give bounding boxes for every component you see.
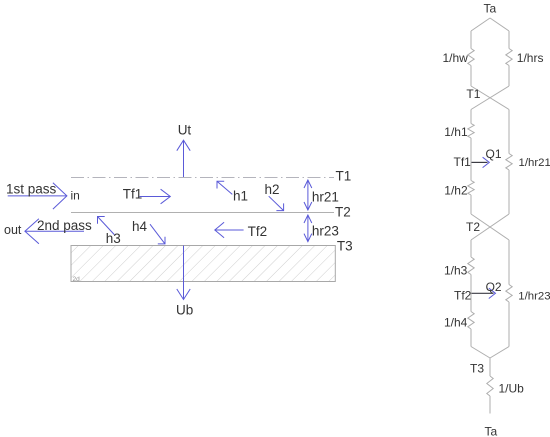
arrow Q2 (heat input at Tf2 node) <box>472 288 496 298</box>
svg-text:Ut: Ut <box>178 123 192 138</box>
node T1 crossing wire b <box>471 86 509 110</box>
glass cover line T2 <box>71 212 334 214</box>
svg-text:2nd pass: 2nd pass <box>37 218 92 233</box>
svg-text:T1: T1 <box>466 87 480 101</box>
svg-text:T3: T3 <box>337 239 353 254</box>
wire left d1 lower <box>470 66 472 87</box>
svg-text:1/hr21: 1/hr21 <box>519 157 550 169</box>
resistor 1/h3 <box>468 257 474 275</box>
svg-text:T3: T3 <box>470 362 484 376</box>
node T2 crossing wire a <box>471 214 509 240</box>
resistor 1/hr23 <box>506 285 512 303</box>
arrow 1st pass (inlet, right) <box>8 195 67 197</box>
arrow hr23 (double, T2-T3 gap) <box>304 215 312 242</box>
svg-text:1/h2: 1/h2 <box>444 184 468 198</box>
wire right d3 upper <box>508 240 510 285</box>
resistor 1/hw <box>468 49 474 66</box>
node T3 vertex wire left <box>471 347 490 359</box>
wire right d2 lower <box>508 170 510 214</box>
wire right d1 lower <box>508 66 510 87</box>
svg-text:1/h4: 1/h4 <box>444 316 468 330</box>
svg-text:1/hrs: 1/hrs <box>517 51 544 65</box>
svg-text:h1: h1 <box>233 189 248 204</box>
svg-text:2d: 2d <box>73 276 81 283</box>
svg-text:hr23: hr23 <box>312 223 339 238</box>
svg-text:Tf2: Tf2 <box>454 288 472 302</box>
svg-text:1/h1: 1/h1 <box>444 125 468 139</box>
svg-text:Ub: Ub <box>176 303 193 318</box>
glass cover line T1 (dash-dot) <box>71 177 334 179</box>
wire left d1 upper <box>470 31 472 49</box>
svg-text:1/h3: 1/h3 <box>444 264 468 278</box>
resistor 1/hr21 <box>506 154 512 171</box>
arrow h3 (up-left) <box>98 217 115 235</box>
resistor 1/Ub <box>487 376 493 396</box>
svg-text:h3: h3 <box>106 231 121 246</box>
arrow Ut (top loss, up) <box>183 140 185 177</box>
svg-text:Tf1: Tf1 <box>454 155 472 169</box>
resistor 1/h1 <box>468 124 474 139</box>
arrow hr21 (double, T1-T2 gap) <box>304 180 312 210</box>
svg-text:hr21: hr21 <box>312 190 339 205</box>
wire left d3 upper <box>470 240 472 257</box>
svg-text:Tf1: Tf1 <box>123 187 143 202</box>
svg-text:in: in <box>71 189 80 203</box>
arrow h4 (down-right) <box>150 224 165 244</box>
svg-text:h2: h2 <box>265 182 280 197</box>
wire right d2 upper <box>508 110 510 154</box>
svg-text:out: out <box>4 223 22 237</box>
svg-text:1/hw: 1/hw <box>443 51 469 65</box>
wire to bottom Ta <box>489 396 491 414</box>
arrow Tf2 (fluid 2, left) <box>215 229 244 231</box>
wire right d1 upper <box>508 31 510 49</box>
wire top apex left <box>471 18 490 31</box>
wire T3 down <box>489 358 491 376</box>
wire right d3 lower <box>508 302 510 347</box>
node T3 vertex wire right <box>490 347 509 359</box>
wire left d3 mid <box>470 275 472 312</box>
arrow Ub (bottom loss, down) <box>183 246 185 300</box>
wire top apex right <box>490 18 509 31</box>
arrow Q1 (heat input at Tf1 node) <box>472 157 490 167</box>
svg-text:1/hr23: 1/hr23 <box>518 290 550 302</box>
svg-text:Q1: Q1 <box>486 147 502 161</box>
svg-text:Q2: Q2 <box>486 280 502 294</box>
resistor 1/h2 <box>468 181 474 196</box>
svg-text:T2: T2 <box>466 220 480 234</box>
svg-text:Tf2: Tf2 <box>248 224 268 239</box>
svg-text:h4: h4 <box>132 219 148 234</box>
resistor 1/hrs <box>506 49 512 66</box>
wire left d3 lower <box>470 329 472 347</box>
arrow h2 (down-right) <box>269 196 284 210</box>
svg-text:1st pass: 1st pass <box>6 182 57 197</box>
svg-text:T2: T2 <box>335 205 351 220</box>
wire left d2 mid <box>470 138 472 181</box>
svg-text:Ta: Ta <box>484 2 497 16</box>
resistor 1/h4 <box>468 312 474 330</box>
node T1 crossing wire a <box>471 86 509 110</box>
arrow Tf1 (fluid 1, right) <box>140 196 171 198</box>
arrow h1 (up-left) <box>217 181 232 194</box>
svg-text:Ta: Ta <box>485 425 498 437</box>
node T2 crossing wire b <box>471 214 509 240</box>
wire left d2 upper <box>470 110 472 124</box>
svg-text:1/Ub: 1/Ub <box>499 382 525 396</box>
absorber plate (hatched) <box>71 246 335 282</box>
svg-text:T1: T1 <box>336 169 352 184</box>
wire left d2 lower <box>470 195 472 214</box>
arrow 2nd pass (outlet, left) <box>25 230 84 232</box>
